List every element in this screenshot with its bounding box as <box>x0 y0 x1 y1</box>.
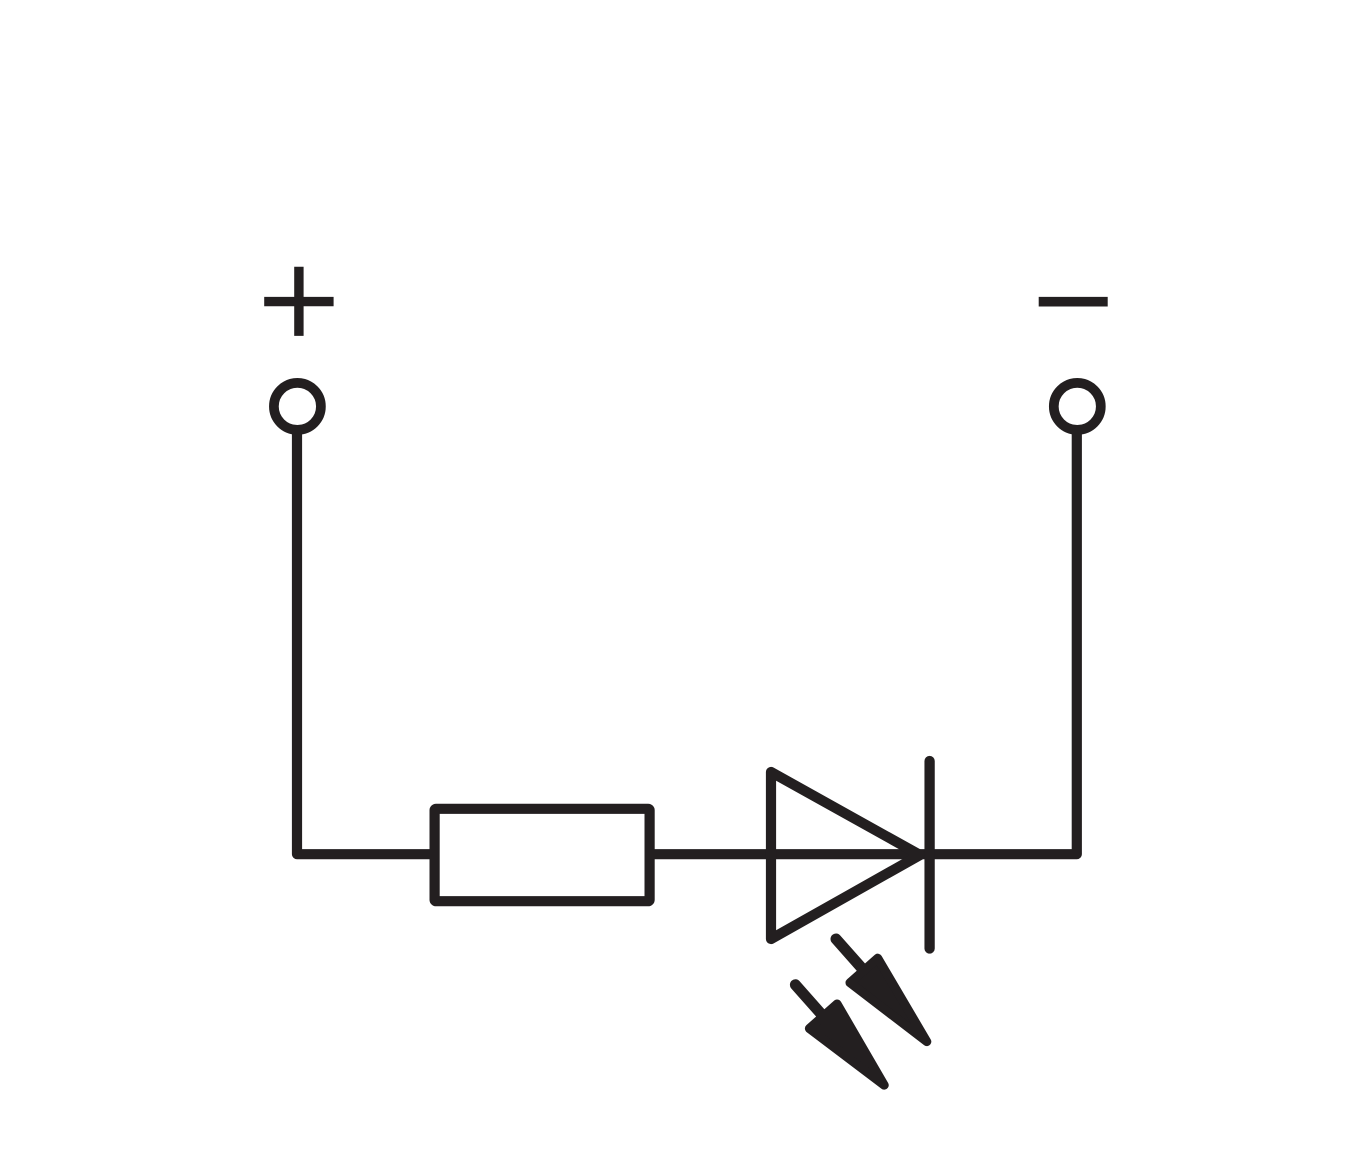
resistor R1 <box>435 809 650 901</box>
LED emission arrow 1 <box>822 927 940 1054</box>
wire from resistor through LED to - terminal <box>652 434 1077 855</box>
terminal circle - <box>1054 383 1101 430</box>
LED D1 anode triangle <box>771 772 920 939</box>
terminal circle + <box>274 383 321 430</box>
plus terminal label <box>264 267 333 336</box>
minus terminal label <box>1039 297 1108 307</box>
wire from + terminal to resistor <box>297 434 432 855</box>
LED D1 cathode bar <box>924 761 934 949</box>
LED emission arrow 2 <box>782 973 899 1098</box>
